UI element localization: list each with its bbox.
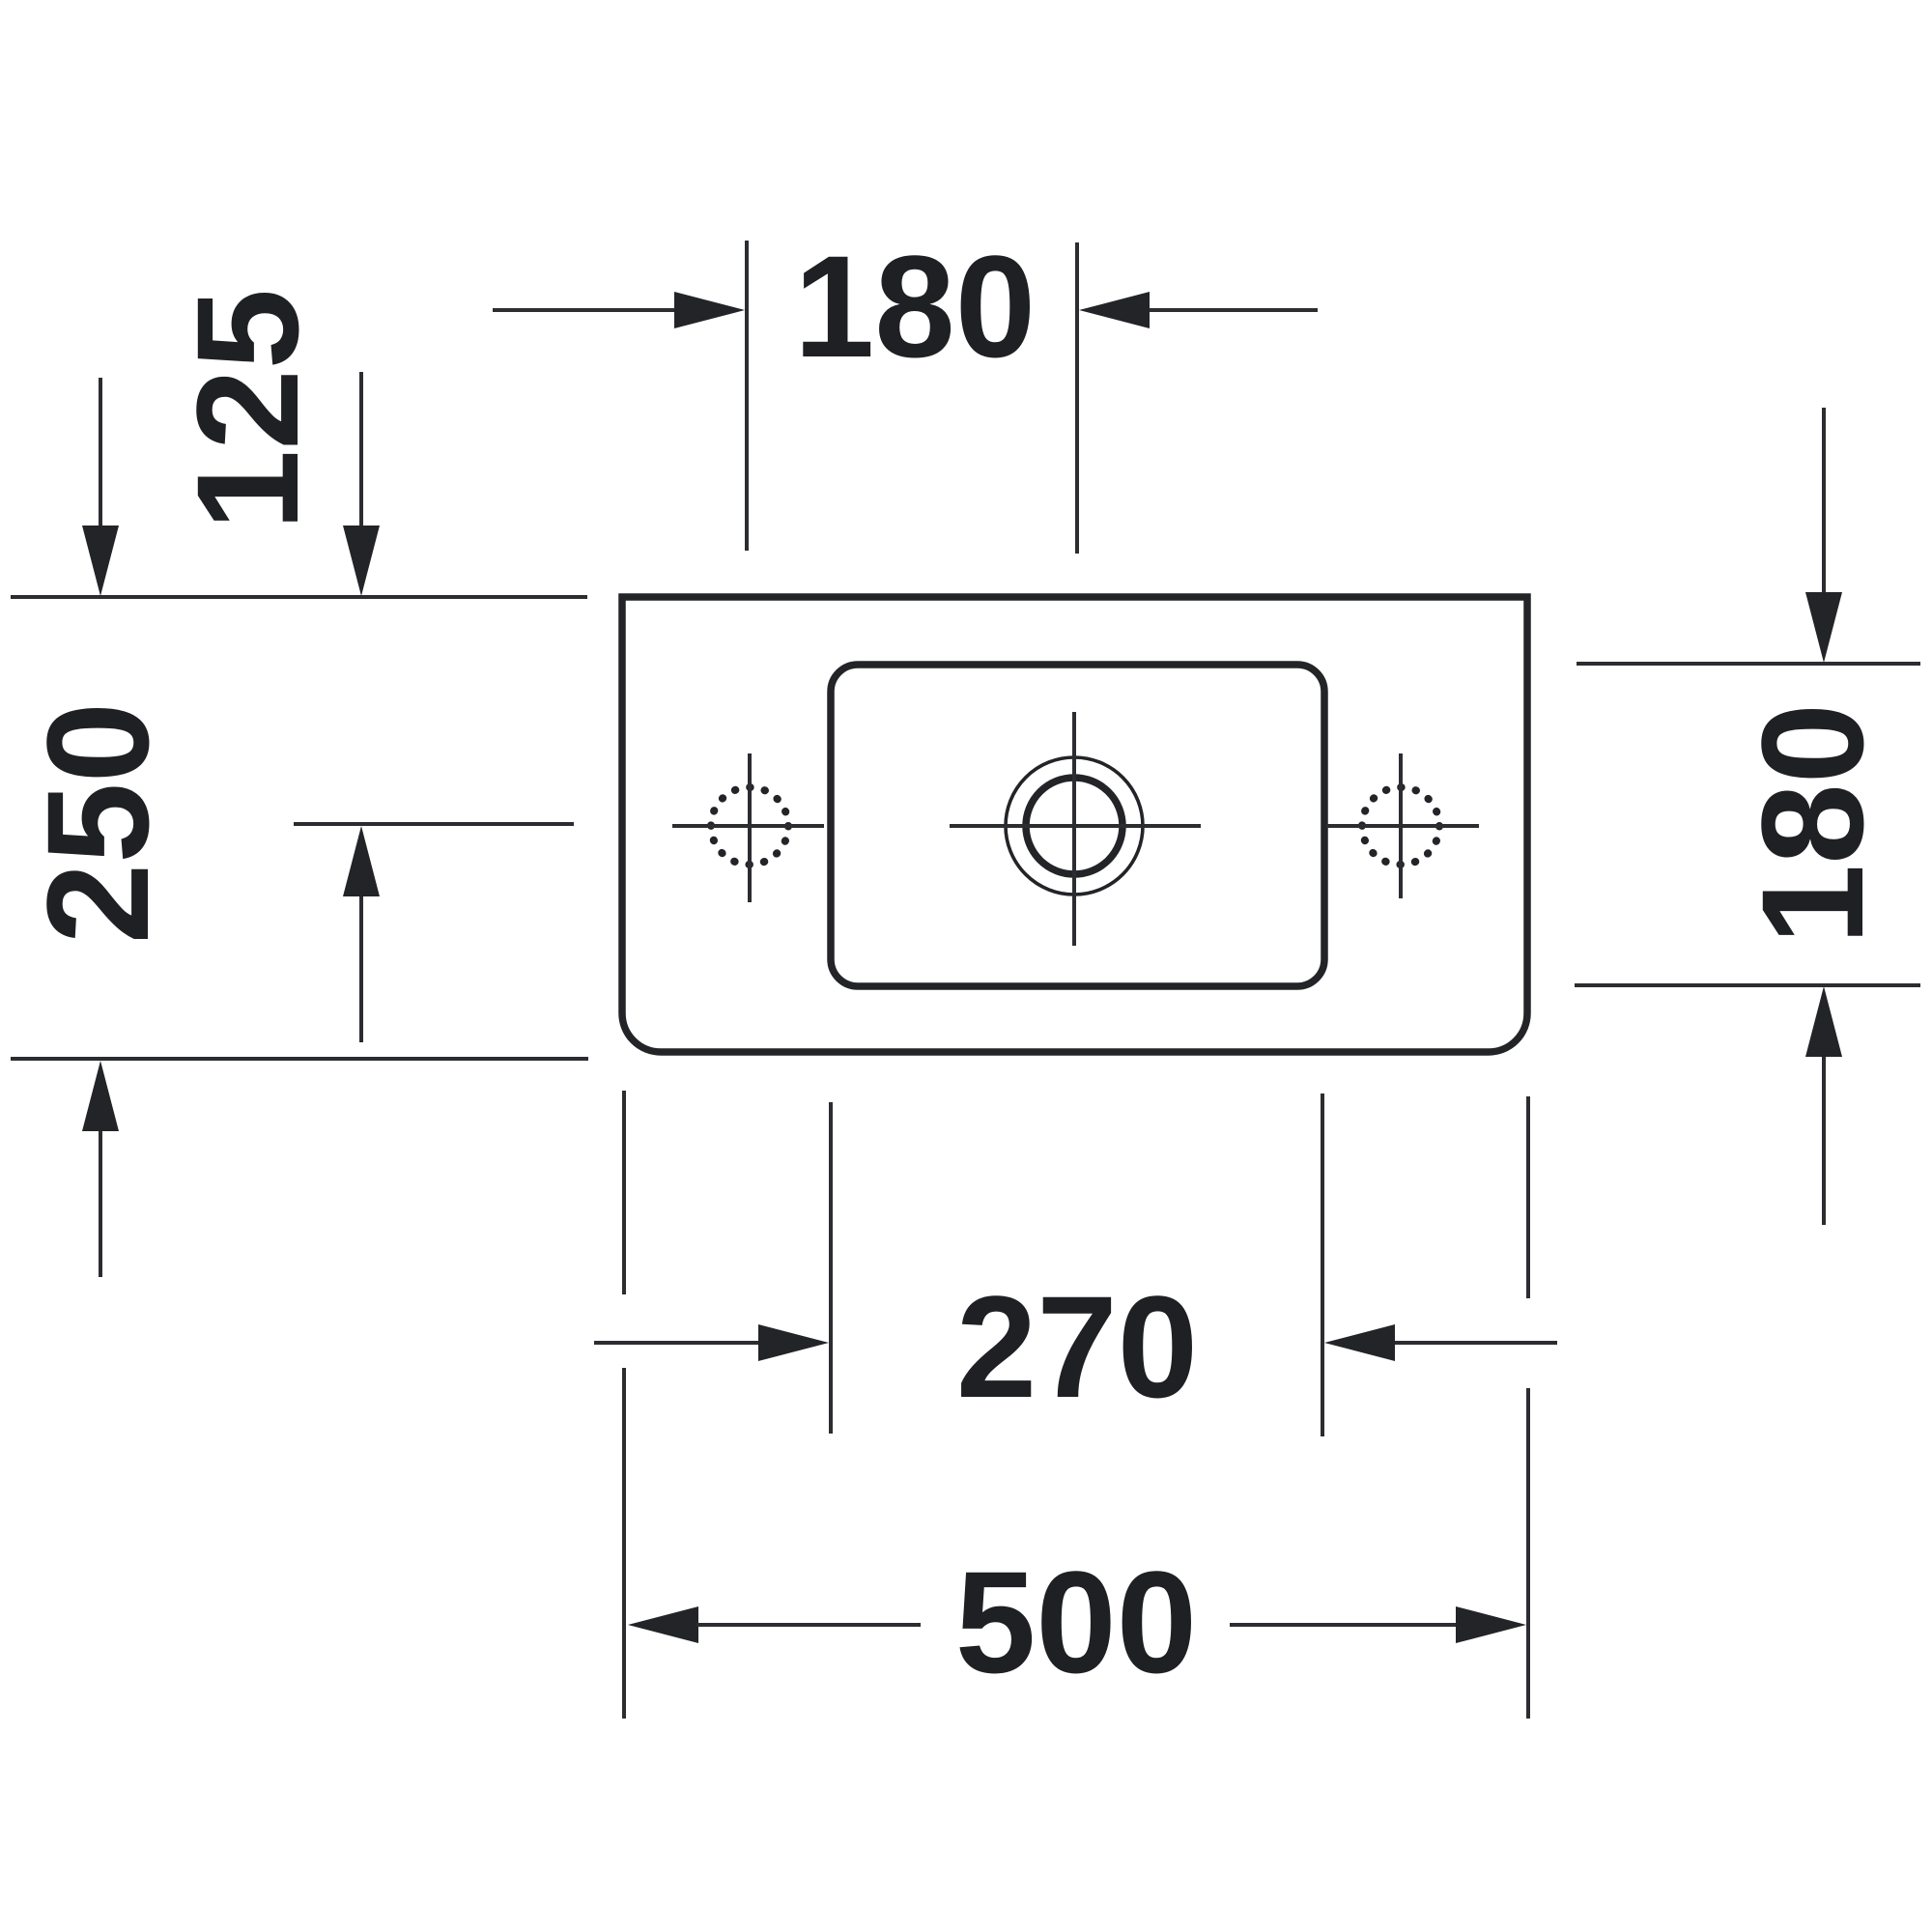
dimension 180 top, right extension line — [1075, 242, 1079, 554]
dimension 270 right extension line — [1321, 1094, 1324, 1436]
faucet hole centerline vertical — [1072, 712, 1076, 946]
dimension 250 upper arrow — [82, 378, 119, 596]
dimension 180 top, left extension line — [745, 241, 749, 551]
svg-text:125: 125 — [166, 289, 328, 530]
extension line basin top edge (left) — [11, 595, 587, 599]
dimension 125 upper arrow — [343, 372, 380, 596]
dimension 180 right, bottom extension line — [1575, 983, 1920, 987]
right side hole centerline vertical — [1399, 753, 1403, 898]
left side hole dotted circle — [711, 787, 788, 865]
dimension 250 lower arrow — [82, 1061, 119, 1277]
svg-text:270: 270 — [956, 1265, 1198, 1428]
dimension 500 left extension line upper segment — [622, 1091, 626, 1294]
dimension 500 right extension line lower segment — [1526, 1388, 1530, 1719]
dimension 500 left extension line lower segment — [622, 1368, 626, 1719]
right side hole dotted circle — [1362, 787, 1439, 865]
dimension 180 right, upper arrow — [1805, 408, 1842, 663]
dimension 180 right, lower arrow — [1805, 986, 1842, 1225]
dimension 500 right extension line upper segment — [1526, 1096, 1530, 1298]
right side hole centerline horizontal — [1326, 824, 1479, 828]
svg-text:180: 180 — [794, 225, 1036, 387]
dimension 270 right arrow — [1324, 1324, 1557, 1361]
dimension 500 left arrow — [628, 1606, 921, 1643]
faucet hole inner circle — [1026, 778, 1122, 874]
svg-text:250: 250 — [16, 702, 179, 944]
faucet hole outer circle — [1006, 757, 1143, 895]
extension line basin bottom edge (left) — [11, 1057, 588, 1061]
dimension 180 right, top extension line — [1577, 662, 1920, 666]
basin outer outline — [622, 597, 1527, 1052]
svg-text:500: 500 — [955, 1541, 1197, 1703]
dimension 180 top, right arrow — [1079, 292, 1318, 328]
dimension 500 right arrow — [1230, 1606, 1526, 1643]
left side hole centerline vertical — [748, 753, 752, 902]
inner bowl rounded rectangle — [831, 665, 1324, 986]
dimension 180 top, left arrow — [493, 292, 745, 328]
dimension 270 left arrow — [594, 1324, 829, 1361]
left side hole centerline horizontal — [672, 824, 824, 828]
faucet hole centerline horizontal — [950, 824, 1201, 828]
extension line faucet axis (left) — [294, 822, 574, 826]
dimension 125 lower arrow — [343, 826, 380, 1042]
dimension 270 left extension line — [829, 1102, 833, 1434]
svg-text:180: 180 — [1731, 703, 1893, 945]
